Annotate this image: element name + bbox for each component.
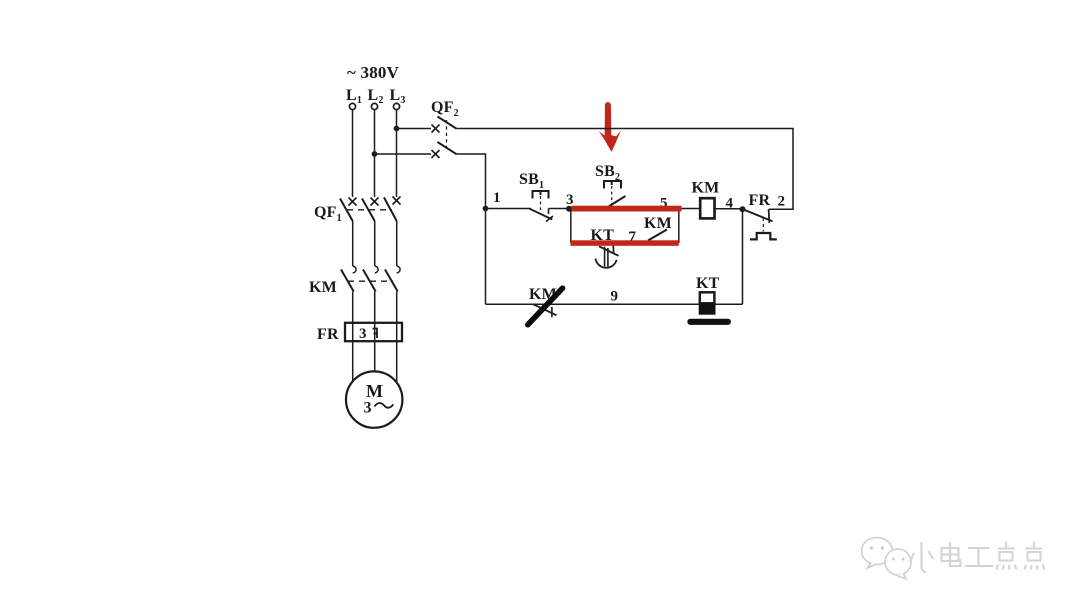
svg-text:9: 9 bbox=[611, 289, 619, 305]
wire FR to motor pole1 bbox=[352, 341, 354, 381]
thermal contact FR link dashed bbox=[762, 218, 764, 232]
svg-text:KM: KM bbox=[692, 180, 720, 197]
contact KM interlock tick bbox=[551, 307, 553, 317]
svg-text:QF1: QF1 bbox=[314, 204, 342, 224]
breaker QF1 pole2 blade bbox=[362, 199, 375, 222]
thermal relay FR heater box bbox=[345, 323, 402, 341]
annotation strike bar over KM interlock bbox=[528, 288, 563, 325]
node 4 bbox=[740, 206, 746, 212]
pushbutton SB2 actuator bracket bbox=[604, 181, 621, 189]
contact KM aux blade bbox=[648, 230, 667, 241]
breaker QF1 linkage dashed bbox=[347, 209, 392, 211]
annotation red arrow bbox=[599, 102, 621, 152]
breaker QF1 pole3 cross bbox=[393, 197, 401, 205]
timer contact KT delay arc bbox=[596, 259, 617, 268]
timer contact KT stem lines bbox=[605, 247, 608, 267]
watermark logo bubbles bbox=[862, 538, 912, 580]
motor tilde bbox=[375, 403, 394, 408]
svg-text:3: 3 bbox=[359, 326, 367, 342]
wire L2 node to QF2 pole2 bbox=[375, 153, 432, 155]
svg-text:M: M bbox=[366, 381, 383, 401]
wire FR to motor pole3 bbox=[396, 341, 398, 381]
wire top rail QF2 to right corner bbox=[457, 129, 794, 210]
wire node1 to SB1 bbox=[486, 208, 532, 210]
wire red-bar end to KM coil bbox=[680, 208, 700, 210]
wire bottom branch right vertical bbox=[742, 209, 744, 304]
breaker QF2 pole2 blade bbox=[438, 142, 457, 154]
terminal L1 bbox=[349, 103, 355, 109]
contactor KM pole2 blade bbox=[363, 270, 376, 292]
svg-text:3: 3 bbox=[566, 192, 574, 208]
wire QF1 to KM pole3 bbox=[396, 221, 398, 266]
pushbutton SB2 blade NO bbox=[607, 196, 626, 208]
watermark text strokes bbox=[910, 542, 1045, 573]
contactor KM pole1 fixed arc bbox=[353, 266, 356, 273]
breaker QF1 pole1 blade bbox=[340, 199, 353, 222]
pushbutton SB1 blade bbox=[530, 209, 553, 220]
terminal L3 bbox=[393, 103, 399, 109]
wire QF2 pole2 to node 1 bbox=[457, 154, 486, 209]
pushbutton SB1 link dashed bbox=[540, 196, 542, 210]
breaker QF2 pole2 contact cross bbox=[432, 150, 440, 158]
coil KT box upper bbox=[700, 292, 715, 303]
breaker QF2 pole1 contact cross bbox=[432, 125, 440, 133]
svg-text:3: 3 bbox=[364, 400, 372, 417]
breaker QF1 pole1 cross bbox=[349, 198, 357, 206]
coil KT delay bar bbox=[687, 319, 731, 325]
svg-text:KT: KT bbox=[696, 275, 720, 292]
thermal relay FR phase symbol bbox=[373, 329, 378, 339]
wire L3 node to QF2 pole1 bbox=[397, 128, 432, 130]
svg-text:KM: KM bbox=[644, 215, 672, 232]
wire L3 down to QF1 bbox=[396, 110, 398, 197]
thermal contact FR fixed stub bbox=[768, 209, 771, 223]
wire L2 down to QF1 bbox=[374, 110, 376, 197]
contactor KM pole1 blade bbox=[341, 270, 354, 292]
pushbutton SB1 actuator bracket bbox=[533, 191, 549, 199]
breaker QF2 linkage dashed bbox=[446, 120, 448, 151]
timer contact KT tick bbox=[612, 246, 615, 253]
node on L3 feeding QF2 bbox=[394, 126, 400, 132]
coil KT box lower filled bbox=[699, 303, 716, 314]
timer contact KT blade bbox=[599, 246, 619, 256]
breaker QF1 pole2 cross bbox=[371, 198, 379, 206]
wire bottom branch horizontal bbox=[486, 303, 743, 305]
svg-text:1: 1 bbox=[493, 190, 501, 206]
wire parallel branch left vertical bbox=[570, 209, 572, 244]
node 1 bbox=[483, 206, 489, 212]
svg-text:FR: FR bbox=[749, 192, 771, 209]
wire KM through FR box pole1 bbox=[352, 292, 354, 342]
pushbutton SB1 NC tick bbox=[546, 216, 553, 222]
pushbutton SB1 fixed terminal bbox=[548, 209, 550, 215]
motor M circle bbox=[346, 371, 402, 427]
wire QF1 to KM pole1 bbox=[352, 221, 354, 266]
wire QF1 to KM pole2 bbox=[374, 221, 376, 266]
highlight red bar 3-5 bbox=[572, 206, 682, 212]
terminal L2 bbox=[371, 103, 377, 109]
pushbutton SB2 link dashed bbox=[611, 186, 613, 204]
wire FR to motor pole2 bbox=[374, 341, 376, 371]
svg-text:SB1: SB1 bbox=[519, 171, 544, 191]
contactor KM pole3 fixed arc bbox=[397, 266, 400, 273]
thermal contact FR blade bbox=[744, 210, 773, 222]
highlight red bar KT-7 bbox=[571, 240, 679, 246]
svg-text:~ 380V: ~ 380V bbox=[347, 63, 400, 82]
svg-text:4: 4 bbox=[726, 196, 734, 212]
wire KM through FR box pole2 bbox=[374, 292, 376, 342]
svg-text:QF2: QF2 bbox=[431, 99, 459, 119]
contactor KM linkage dashed bbox=[348, 280, 393, 282]
contactor KM pole3 blade bbox=[385, 270, 398, 292]
wire parallel branch right vertical bbox=[678, 209, 680, 244]
svg-text:2: 2 bbox=[778, 194, 786, 210]
wire L1 down to QF1 bbox=[352, 110, 354, 197]
node 3 bbox=[566, 206, 572, 212]
thermal contact FR heater bump bbox=[750, 233, 777, 239]
wire bottom branch left vertical bbox=[485, 209, 487, 305]
wire KM through FR box pole3 bbox=[396, 292, 398, 342]
wire SB1 to node 3 bbox=[549, 208, 572, 210]
breaker QF1 pole3 blade bbox=[384, 198, 397, 222]
breaker QF2 pole1 blade bbox=[438, 117, 457, 129]
svg-text:FR: FR bbox=[317, 326, 339, 343]
node on L2 feeding QF2 bbox=[372, 151, 378, 157]
contact KM interlock blade bbox=[533, 304, 557, 315]
contactor KM pole2 fixed arc bbox=[375, 266, 378, 273]
coil KM rectangle bbox=[700, 198, 714, 218]
svg-text:KM: KM bbox=[309, 279, 337, 296]
wire KM coil to node 4 bbox=[715, 208, 743, 210]
